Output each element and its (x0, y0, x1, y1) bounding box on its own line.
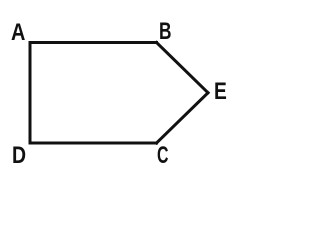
vertex label D (12, 144, 26, 168)
vertex label C (157, 144, 168, 168)
side CD (bottom edge of pentagon) (30, 142, 157, 145)
side BE (upper-right diagonal) (157, 43, 209, 93)
vertex label A (11, 21, 25, 45)
vertex label B (159, 20, 171, 44)
side DA (left edge of pentagon) (29, 43, 32, 144)
side EC (lower-right diagonal) (157, 93, 209, 143)
side AB (top edge of pentagon) (30, 41, 157, 44)
vertex label E (214, 80, 227, 104)
